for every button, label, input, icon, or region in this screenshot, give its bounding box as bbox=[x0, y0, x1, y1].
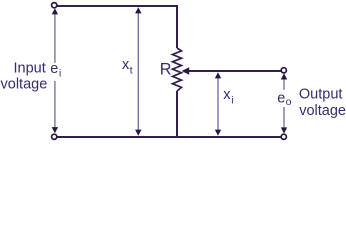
wire: bottom rail bbox=[57, 136, 281, 138]
svg-text:Output: Output bbox=[299, 87, 343, 103]
svg-text:i: i bbox=[231, 94, 233, 106]
svg-text:t: t bbox=[130, 65, 133, 77]
svg-text:o: o bbox=[286, 96, 292, 108]
resistor R (potentiometer element) bbox=[173, 48, 182, 91]
svg-text:e: e bbox=[50, 61, 58, 77]
terminal bottom-right bbox=[281, 134, 286, 139]
svg-text:R: R bbox=[160, 61, 172, 79]
e_o arrowhead up bbox=[281, 73, 287, 79]
x_i arrowhead up bbox=[215, 72, 221, 78]
wire: right vertical branch top (to resistor) bbox=[176, 5, 178, 48]
svg-text:Input: Input bbox=[14, 60, 46, 76]
dimension arrow e_o stem lower bbox=[283, 107, 285, 129]
svg-text:voltage: voltage bbox=[299, 103, 346, 119]
wiper arrowhead on potentiometer bbox=[182, 67, 190, 74]
dimension arrow x_i stem bbox=[217, 78, 219, 131]
dimension arrow e_i stem upper bbox=[54, 14, 56, 63]
svg-text:i: i bbox=[59, 68, 61, 79]
svg-text:x: x bbox=[223, 87, 231, 103]
x_i arrowhead down bbox=[215, 130, 221, 136]
wire: right vertical branch bottom (resistor to bottom rail) bbox=[176, 91, 178, 138]
wire: wiper output wire bbox=[189, 70, 282, 72]
dimension arrow e_i stem lower bbox=[54, 81, 56, 128]
dimension arrow x_t stem bbox=[137, 13, 139, 131]
svg-text:e: e bbox=[277, 91, 285, 107]
terminal bottom-left bbox=[52, 134, 57, 139]
e_i arrowhead up bbox=[52, 8, 58, 14]
terminal top-right (wiper) bbox=[281, 68, 286, 73]
terminal top-left bbox=[52, 3, 57, 8]
svg-text:voltage: voltage bbox=[1, 77, 48, 93]
e_o arrowhead down bbox=[281, 127, 287, 133]
x_t arrowhead up bbox=[135, 7, 141, 13]
wire: top rail from input terminal to resistor branch bbox=[57, 5, 178, 7]
x_t arrowhead down bbox=[135, 130, 141, 136]
dimension arrow e_o stem upper bbox=[283, 79, 285, 90]
e_i arrowhead down bbox=[52, 127, 58, 133]
